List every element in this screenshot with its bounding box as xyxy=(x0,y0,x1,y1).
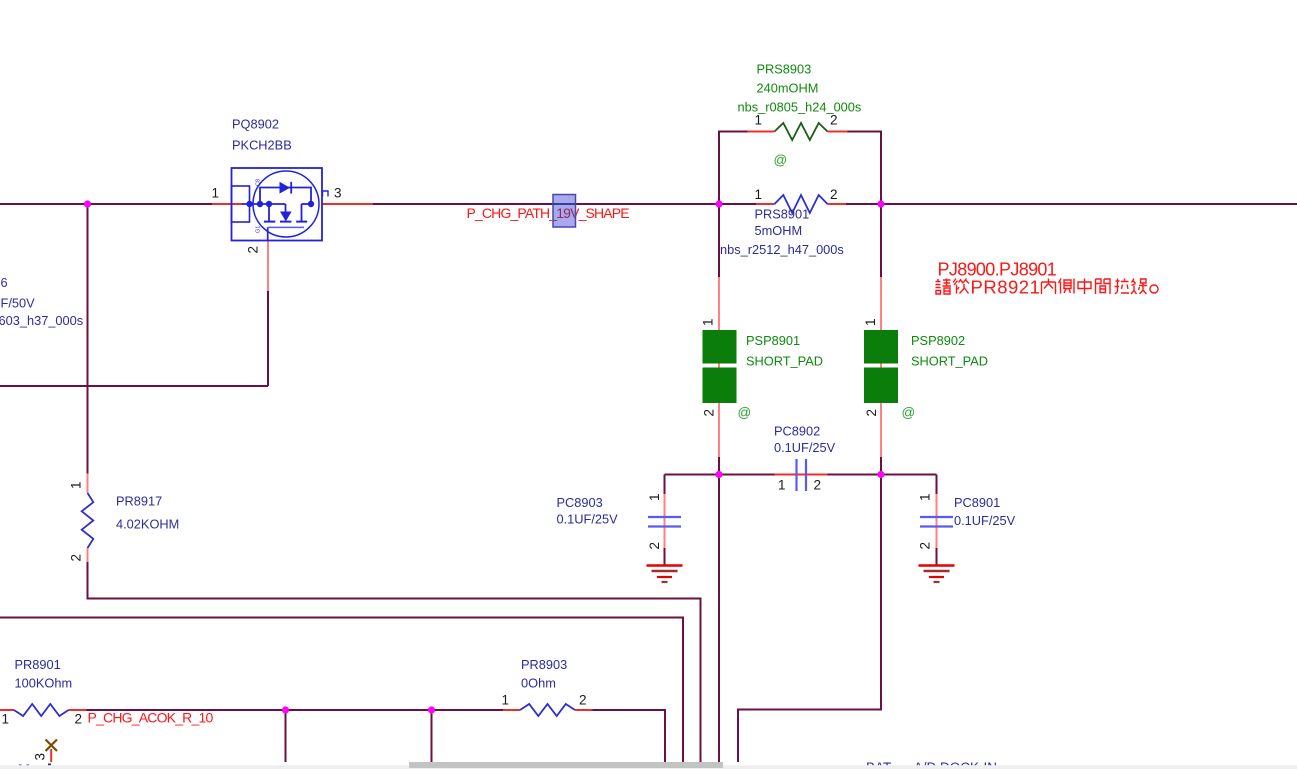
wire PRS8901 pin2 stub xyxy=(828,203,847,205)
wire MOSFET pin2 net horizontal y=386 xyxy=(0,385,268,387)
svg-text:@: @ xyxy=(774,153,788,168)
transistor PQ8902 load-switch MOSFET symbol xyxy=(232,168,323,241)
svg-text:1: 1 xyxy=(211,186,219,201)
svg-text:1: 1 xyxy=(755,187,763,202)
svg-text:0.1UF/25V: 0.1UF/25V xyxy=(954,513,1016,528)
svg-text:PC8901: PC8901 xyxy=(954,495,1000,510)
svg-text:240mOHM: 240mOHM xyxy=(757,81,819,96)
wire PR8901 pin2 stub xyxy=(69,709,87,711)
svg-text:SHORT_PAD: SHORT_PAD xyxy=(911,354,988,369)
wire main bus segment PRS8901 pin2 to right edge xyxy=(846,203,1297,205)
capacitor PC8902 xyxy=(795,459,797,491)
wire vertical x=431 down xyxy=(431,710,433,762)
svg-text:1: 1 xyxy=(647,493,662,501)
svg-text:1: 1 xyxy=(778,478,786,493)
wire PC8903 to ground xyxy=(664,548,666,565)
svg-text:0.1UF/25V: 0.1UF/25V xyxy=(774,440,836,455)
wire main bus center segment xyxy=(373,203,719,205)
wire horizontal y=617 from left edge xyxy=(0,618,683,763)
svg-text:nbs_r2512_h47_000s: nbs_r2512_h47_000s xyxy=(720,242,844,257)
svg-text:PR8917: PR8917 xyxy=(116,494,162,509)
svg-text:2: 2 xyxy=(814,478,822,493)
svg-text:3: 3 xyxy=(334,186,342,201)
wire MOSFET pin2 stub xyxy=(267,241,269,292)
wire top loop to PRS8903 xyxy=(719,132,748,205)
wire main bus between junction and PRS8901 xyxy=(719,203,756,205)
annotation CJK 側 xyxy=(1059,279,1075,294)
svg-text:2: 2 xyxy=(246,246,261,254)
wire bottom bus P_CHG_ACOK xyxy=(87,709,504,711)
wire vertical from junction 88/204 down xyxy=(87,204,89,474)
svg-text:0Ohm: 0Ohm xyxy=(521,676,556,691)
svg-text:P_CHG_ACOK_R_10: P_CHG_ACOK_R_10 xyxy=(88,709,214,725)
annotation CJK 拉 xyxy=(1115,279,1130,295)
annotation CJK 內 xyxy=(1042,279,1056,295)
svg-text:2: 2 xyxy=(830,187,838,202)
capacitor PC8901 xyxy=(920,516,953,518)
wire PR8917 pin2 stub xyxy=(87,548,89,562)
svg-text:1: 1 xyxy=(863,318,878,326)
svg-text:1: 1 xyxy=(2,712,10,727)
wire PR8901 pin1 stub xyxy=(0,709,14,711)
annotation CJK 請 xyxy=(936,279,952,295)
resistor PRS8901 zigzag xyxy=(775,195,828,213)
resistor PR8901 zigzag xyxy=(14,704,69,716)
wire MOSFET pin3 stub red segment xyxy=(322,203,373,205)
node junction dot at 285.5,710 xyxy=(282,706,289,713)
svg-text:2: 2 xyxy=(830,113,838,128)
capacitor PC8903 xyxy=(648,516,681,518)
svg-text:P_CHG_PATH_19V_SHAPE: P_CHG_PATH_19V_SHAPE xyxy=(467,205,630,221)
svg-text:C8: C8 xyxy=(256,179,262,186)
wire above junction 719/474 xyxy=(718,457,720,475)
wire PR8903 pin1 stub xyxy=(503,709,520,711)
svg-text:6: 6 xyxy=(1,275,8,290)
svg-text:PR8901: PR8901 xyxy=(15,657,61,672)
ground at PC8901 xyxy=(919,564,955,566)
pin 3 stub lower-left xyxy=(50,749,52,762)
wire vertical x=719 down to bottom xyxy=(718,475,720,763)
svg-text:PRS8903: PRS8903 xyxy=(757,62,812,77)
wire MOSFET pin2 vertical xyxy=(267,291,269,386)
node junction dot at 431.5,710 xyxy=(428,706,435,713)
svg-text:1: 1 xyxy=(918,493,933,501)
svg-text:2: 2 xyxy=(69,554,84,562)
svg-text:F/50V: F/50V xyxy=(1,296,36,311)
svg-text:603_h37_000s: 603_h37_000s xyxy=(0,313,83,328)
wire junction 719/204 down to PSP8901 xyxy=(718,204,720,277)
svg-text:2: 2 xyxy=(647,542,662,550)
wire PC8901 pin stubs xyxy=(936,494,938,548)
wire above junction 881/474 xyxy=(880,457,882,475)
wire after PR8903 corner down xyxy=(593,710,666,762)
svg-text:5mOHM: 5mOHM xyxy=(755,223,803,238)
svg-text:PC8903: PC8903 xyxy=(557,495,603,510)
svg-text:PKCH2BB: PKCH2BB xyxy=(232,138,292,153)
wire top loop right of PRS8903 xyxy=(848,132,882,205)
wire vertical x=285 down xyxy=(285,710,287,762)
wire PSP8902 pin2 stub xyxy=(880,404,882,457)
svg-text:2: 2 xyxy=(75,712,83,727)
wire vertical x=881 jog to x=738 xyxy=(738,475,881,763)
node junction dot at 719,204 xyxy=(715,200,722,207)
svg-text:PR8921: PR8921 xyxy=(971,277,1041,298)
wire main horizontal bus P_CHG_PATH_19V left segment xyxy=(0,203,212,205)
svg-text:0.1UF/25V: 0.1UF/25V xyxy=(557,512,619,527)
svg-text:100KOhm: 100KOhm xyxy=(15,676,73,691)
resistor PR8903 zigzag xyxy=(520,704,575,716)
wire PSP8901 pin2 stub xyxy=(718,404,720,457)
resistor PR8917 zigzag xyxy=(82,493,94,548)
wire MOSFET pin1 stub xyxy=(212,203,243,205)
svg-text:@: @ xyxy=(738,405,752,420)
svg-text:PSP8902: PSP8902 xyxy=(911,333,965,348)
wire junction 881/204 down to PSP8902 xyxy=(880,204,882,277)
short-pad PSP8902 xyxy=(864,330,898,364)
svg-text:2: 2 xyxy=(918,542,933,550)
node junction dot at 881,204 xyxy=(877,200,884,207)
ground at PC8903 xyxy=(647,564,683,566)
wire PR8917 bottom L to x=700 xyxy=(88,562,701,762)
svg-text:PRS8901: PRS8901 xyxy=(755,207,810,222)
svg-text:4.02KOHM: 4.02KOHM xyxy=(116,517,179,532)
svg-text:1: 1 xyxy=(701,318,716,326)
node junction dot at 719,474.5 xyxy=(715,471,722,478)
svg-text:2: 2 xyxy=(702,409,717,417)
annotation CJK fullstop xyxy=(1150,285,1158,293)
no-connect X marker xyxy=(46,740,58,752)
wire PSP8901 pin1 stub xyxy=(718,277,720,330)
svg-text:@: @ xyxy=(902,405,916,420)
svg-text:3: 3 xyxy=(33,753,48,761)
wire PR8917 pin1 stub xyxy=(87,474,89,494)
wire PRS8903 pin2 stub xyxy=(828,131,848,133)
svg-text:PC8902: PC8902 xyxy=(774,424,820,439)
annotation CJK 線 xyxy=(1131,279,1147,295)
resistor PRS8903 zigzag xyxy=(775,123,828,140)
svg-text:1: 1 xyxy=(69,481,84,489)
node junction dot at 87.5,204 xyxy=(84,200,91,207)
annotation CJK 中 xyxy=(1078,279,1091,295)
wire corner down to PC8901 xyxy=(936,475,938,495)
wire capacitor bus y=474 xyxy=(665,474,775,476)
wire PRS8903 pin1 stub xyxy=(748,131,775,133)
annotation CJK 間 xyxy=(1096,279,1111,294)
short-pad PSP8901 xyxy=(703,330,737,364)
wire PSP8902 pin1 stub xyxy=(880,277,882,330)
scrollbar thumb xyxy=(409,762,723,768)
svg-text:PR8903: PR8903 xyxy=(521,657,567,672)
partial part pin dot bottom xyxy=(48,764,51,767)
wire PC8903 pin stubs xyxy=(664,494,666,548)
annotation CJK 從 xyxy=(953,279,969,294)
svg-text:1: 1 xyxy=(755,113,763,128)
wire capacitor bus right part xyxy=(828,474,937,476)
node junction dot at 881,474.5 xyxy=(877,471,884,478)
svg-text:SHORT_PAD: SHORT_PAD xyxy=(746,354,823,369)
svg-text:PQ8902: PQ8902 xyxy=(232,117,279,132)
svg-text:G1: G1 xyxy=(256,226,262,233)
svg-text:1: 1 xyxy=(502,693,510,708)
scrollbar track xyxy=(0,765,1297,769)
svg-text:2: 2 xyxy=(579,693,587,708)
wire through PSP8901 pad xyxy=(718,330,720,404)
wire PR8903 pin2 stub xyxy=(575,709,593,711)
wire through PSP8902 pad xyxy=(880,330,882,404)
partial text bottom-left xyxy=(19,765,22,768)
wire corner down to PC8903 xyxy=(664,475,666,495)
wire PC8902 pin stubs xyxy=(775,474,828,476)
wire PC8901 to ground xyxy=(936,548,938,565)
svg-text:2: 2 xyxy=(864,409,879,417)
wire PRS8901 pin1 stub xyxy=(756,203,775,205)
svg-text:PSP8901: PSP8901 xyxy=(746,333,800,348)
